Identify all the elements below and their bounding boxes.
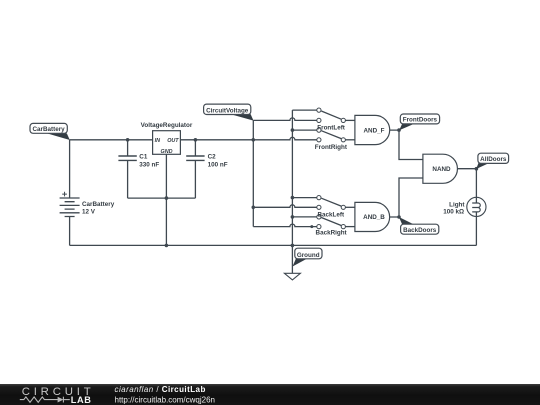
junction FrontDoors node (397, 128, 401, 132)
junction regulator GND at bottom rail (165, 244, 169, 248)
junction CircuitVoltage rail crossing (252, 138, 256, 142)
wire FrontRight common to AND_F input (345, 139, 355, 141)
junction ground rail to FrontRight branch (291, 128, 295, 132)
svg-text:ciaranflan / CircuitLab: ciaranflan / CircuitLab (115, 385, 206, 394)
svg-text:http://circuitlab.com/cwqj26n: http://circuitlab.com/cwqj26n (115, 396, 216, 405)
svg-text:VoltageRegulator: VoltageRegulator (141, 122, 193, 129)
svg-text:BackDoors: BackDoors (403, 227, 437, 234)
wire CircuitVoltage vertical rail (252, 120, 254, 226)
svg-text:100 kΩ: 100 kΩ (443, 209, 464, 216)
node BackDoors flag (399, 217, 439, 234)
wire CircuitVoltage to BackLeft lower throw with hop (253, 205, 316, 207)
svg-text:330 nF: 330 nF (139, 162, 159, 169)
svg-text:Ground: Ground (297, 252, 320, 259)
wire ground vertical rail (291, 110, 293, 273)
footer bar (0, 384, 540, 405)
wire ground rail to BackRight upper throw (292, 216, 316, 218)
lamp Light body (467, 197, 486, 216)
svg-text:BackLeft: BackLeft (317, 211, 344, 218)
junction ground rail at bottom rail (291, 244, 295, 248)
wire BackLeft common to AND_B input (345, 206, 355, 208)
AND gate AND_B body (355, 202, 390, 231)
junction ground rail to BackLeft branch (291, 196, 295, 200)
junction AllDoors node (475, 167, 479, 171)
svg-text:AND_F: AND_F (364, 127, 385, 134)
svg-text:100 nF: 100 nF (208, 162, 228, 169)
wire battery positive lead (69, 140, 71, 198)
wire AND_B output to NAND input B (390, 178, 423, 217)
svg-text:LAB: LAB (71, 395, 92, 405)
wire C2 leads (194, 140, 196, 198)
node Ground flag (293, 248, 323, 266)
svg-text:AllDoors: AllDoors (480, 156, 507, 163)
wire FrontLeft common to AND_F input (345, 119, 355, 121)
svg-text:OUT: OUT (167, 138, 179, 144)
wire regulator OUT rail to FrontRight lower throw with hop (180, 137, 316, 140)
node CircuitVoltage flag (204, 104, 254, 121)
junction BackDoors node (397, 215, 401, 219)
svg-text:12 V: 12 V (82, 209, 96, 216)
wire NAND output to AllDoors node (458, 168, 477, 170)
switch BackRight terminals and lever (317, 215, 346, 229)
wire AND_F output to NAND input A (390, 130, 423, 159)
svg-text:Light: Light (449, 201, 465, 208)
svg-text:FrontRight: FrontRight (315, 144, 348, 151)
svg-text:CircuitVoltage: CircuitVoltage (206, 107, 249, 114)
voltage regulator U1 box (153, 131, 181, 155)
svg-text:BackRight: BackRight (316, 230, 348, 237)
junction CircuitVoltage to BackLeft branch (252, 206, 256, 210)
wire battery negative lead (69, 217, 71, 246)
wire CircuitVoltage to FrontLeft lower throw with hop (253, 118, 316, 121)
junction regulator GND at C1-C2 wire (165, 196, 169, 200)
component value texts (82, 122, 465, 237)
node FrontDoors flag (399, 114, 439, 130)
node AllDoors flag (476, 153, 508, 169)
wire ground rail to FrontRight upper throw (292, 129, 316, 131)
NAND gate body (423, 154, 458, 183)
ground symbol (284, 273, 300, 280)
capacitor C2 plates (186, 156, 204, 160)
wire regulator GND to bottom rail (165, 154, 167, 245)
switch BackLeft terminals and lever (317, 196, 346, 210)
svg-text:NAND: NAND (432, 166, 451, 173)
svg-text:GND: GND (161, 149, 173, 155)
wire top rail battery to regulator IN (70, 139, 153, 141)
svg-text:FrontDoors: FrontDoors (403, 117, 438, 124)
svg-text:C1: C1 (139, 153, 148, 160)
svg-text:IN: IN (155, 138, 160, 144)
svg-text:CarBattery: CarBattery (82, 201, 115, 208)
wire lamp bottom to ground rail (475, 212, 477, 246)
junction C1 top on rail (126, 138, 130, 142)
wire ground rail to FrontLeft upper throw (292, 109, 316, 111)
svg-text:C2: C2 (208, 153, 217, 160)
junction ground rail to BackRight branch (291, 215, 295, 219)
svg-text:FrontLeft: FrontLeft (317, 124, 346, 131)
junction C2 top on rail (194, 138, 198, 142)
switch FrontLeft terminals and lever (317, 108, 346, 123)
junction wire end at BackRight lower throw (310, 225, 313, 228)
svg-text:CarBattery: CarBattery (32, 126, 65, 133)
wire CircuitVoltage to BackRight lower throw with hop (253, 224, 316, 226)
battery CarBattery plates (60, 198, 80, 217)
capacitor C1 plates (118, 156, 136, 160)
wire bottom ground rail (70, 244, 477, 246)
svg-text:AND_B: AND_B (363, 214, 385, 221)
footer logo resistor and diode (20, 397, 70, 403)
wire ground rail to BackLeft upper throw (292, 197, 316, 199)
switch FrontRight terminals and lever (317, 128, 346, 142)
wire AllDoors node down to lamp (475, 169, 477, 203)
wire C1 bottom to C2 bottom (128, 197, 196, 199)
wire BackRight common to AND_B input (345, 226, 355, 228)
wire C1 leads (127, 140, 129, 198)
node CarBattery flag (30, 123, 70, 140)
AND gate AND_F body (355, 115, 390, 144)
battery plus sign (62, 192, 67, 197)
